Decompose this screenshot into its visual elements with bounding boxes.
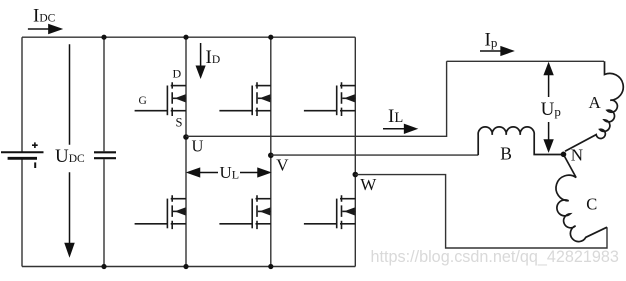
- wire: motor top line (phase A feed): [447, 60, 604, 62]
- svg-text:A: A: [589, 93, 602, 112]
- label V: [276, 156, 289, 175]
- wire: top DC bus: [22, 36, 355, 38]
- MOSFET Q3 (upper, phase V): [219, 82, 270, 116]
- label S (Q1 source): [176, 116, 183, 130]
- label N: [571, 146, 583, 165]
- I_D current arrow: [197, 43, 205, 77]
- wire: phase leg W vertical: [354, 37, 356, 266]
- node V (phase V output): [268, 153, 274, 159]
- svg-text:D: D: [173, 67, 182, 81]
- svg-text:V: V: [276, 156, 289, 175]
- label U: [192, 137, 204, 156]
- I_L current arrow: [383, 125, 416, 133]
- capacitor branch wire: [103, 37, 105, 266]
- wire: phase U line to motor: [186, 61, 447, 136]
- U_L voltage arrow (double headed): [188, 168, 270, 176]
- node: bottom bus / capacitor junction: [101, 264, 106, 269]
- label A: [589, 93, 602, 112]
- node: top bus / capacitor junction: [101, 35, 106, 40]
- I_p current arrow: [480, 47, 513, 55]
- wire: phase V line to winding B: [271, 154, 478, 156]
- wire: phase leg V vertical: [270, 37, 272, 266]
- label I_DC: [33, 6, 56, 27]
- wire: phase W line to winding C: [355, 175, 607, 248]
- battery U_DC source: [1, 152, 44, 158]
- label B: [500, 144, 512, 164]
- node U (phase U output): [183, 134, 189, 140]
- label G (Q1 gate): [139, 95, 147, 107]
- svg-text:U: U: [192, 137, 204, 156]
- MOSFET Q4 (lower, phase V): [219, 195, 270, 229]
- winding B (motor phase B coil): [478, 127, 563, 155]
- label U_L: [220, 163, 240, 182]
- label W: [360, 175, 377, 194]
- svg-text:G: G: [139, 95, 147, 107]
- winding A (motor phase A coil): [565, 61, 623, 151]
- wire: phase leg U vertical: [185, 37, 187, 266]
- watermark: [371, 248, 619, 266]
- U_p voltage arrow (double headed vertical): [545, 64, 553, 151]
- node: top bus leg V junction: [268, 35, 273, 40]
- svg-text:B: B: [500, 144, 512, 164]
- svg-text:W: W: [360, 175, 377, 194]
- node: bottom bus leg V junction: [268, 264, 273, 269]
- MOSFET Q2 (lower, phase U): [135, 195, 186, 229]
- battery plus sign: [32, 142, 38, 148]
- wire: bottom DC bus: [22, 266, 355, 268]
- MOSFET Q6 (lower, phase W): [304, 195, 355, 229]
- node W (phase W output): [353, 172, 359, 178]
- MOSFET Q5 (upper, phase W): [304, 82, 355, 116]
- I_DC current arrow: [28, 25, 61, 33]
- wire: left battery branch: [21, 37, 23, 266]
- node: bottom bus leg U junction: [183, 264, 188, 269]
- svg-text:C: C: [586, 195, 597, 214]
- label I_D: [206, 47, 221, 68]
- label D (Q1 drain): [173, 67, 182, 81]
- label I_p: [485, 30, 498, 51]
- node N (star point): [561, 152, 567, 158]
- MOSFET Q1 (upper, phase U): [135, 82, 186, 116]
- node: top bus leg U junction: [183, 35, 188, 40]
- label U_p: [541, 99, 561, 120]
- label I_L: [388, 106, 403, 127]
- U_DC voltage arrow: [65, 44, 73, 255]
- capacitor C (DC link): [94, 152, 116, 158]
- svg-text:S: S: [176, 116, 183, 130]
- label C: [586, 195, 597, 214]
- winding C (motor phase C coil): [556, 155, 607, 242]
- label U_DC: [55, 146, 85, 167]
- svg-text:N: N: [571, 146, 583, 165]
- svg-text:https://blog.csdn.net/qq_42821: https://blog.csdn.net/qq_42821983: [371, 248, 619, 266]
- battery minus sign: [34, 162, 36, 168]
